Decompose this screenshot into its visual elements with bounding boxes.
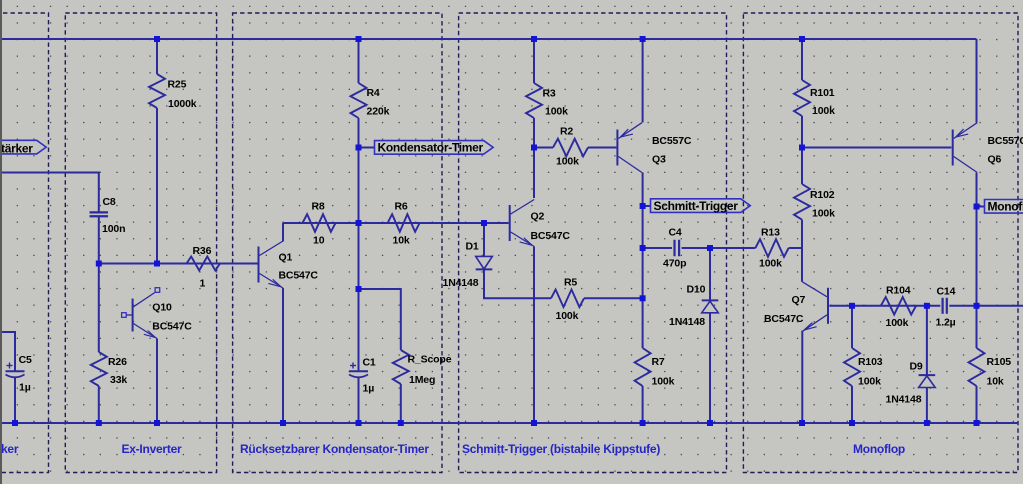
svg-text:C1: C1 bbox=[363, 357, 376, 369]
wire R4 top bbox=[358, 39, 360, 83]
svg-text:1N4148: 1N4148 bbox=[443, 277, 479, 289]
wire C5 bottom bbox=[14, 378, 16, 424]
svg-text:R103: R103 bbox=[858, 356, 883, 368]
resistor R102 bbox=[794, 184, 810, 220]
svg-text:1.2µ: 1.2µ bbox=[936, 317, 956, 329]
wire Q1 base row bbox=[99, 263, 258, 265]
svg-text:10k: 10k bbox=[987, 376, 1004, 388]
svg-text:Schmitt-Trigger: Schmitt-Trigger bbox=[654, 199, 739, 213]
svg-text:R_Scope: R_Scope bbox=[408, 354, 452, 366]
svg-text:Q7: Q7 bbox=[792, 294, 806, 306]
wire R3 top bbox=[533, 39, 535, 83]
wire R101 to base junction bbox=[801, 116, 803, 148]
capacitor C1 (polarized) bbox=[349, 370, 368, 372]
resistor R_Scope bbox=[393, 350, 409, 384]
diode D1 bbox=[476, 256, 493, 269]
svg-text:R36: R36 bbox=[193, 245, 212, 257]
wire flag stub Monoflop bbox=[977, 206, 985, 208]
group box Monoflop bbox=[743, 13, 1018, 473]
wire Q10 emitter down bbox=[156, 339, 158, 424]
capacitor C8 bbox=[90, 211, 109, 213]
svg-text:R101: R101 bbox=[810, 87, 835, 99]
svg-text:Q10: Q10 bbox=[152, 302, 172, 314]
svg-text:Kondensator-Timer: Kondensator-Timer bbox=[378, 141, 484, 155]
resistor R4 bbox=[351, 83, 367, 118]
resistor R104 bbox=[881, 297, 916, 315]
diode D10 bbox=[702, 299, 719, 301]
capacitor C4 bbox=[673, 240, 675, 257]
svg-text:100k: 100k bbox=[812, 208, 835, 220]
wire Q3 collector down bbox=[642, 172, 644, 206]
window left border bbox=[0, 0, 2, 484]
svg-text:BC547C: BC547C bbox=[279, 270, 319, 282]
svg-text:220k: 220k bbox=[367, 106, 390, 118]
wire left input to C8 bbox=[0, 173, 99, 212]
capacitor C5 (polarized) bbox=[6, 370, 25, 372]
resistor R36 bbox=[187, 257, 221, 271]
group box Schmitt-Trigger bbox=[459, 13, 727, 473]
wire Q7 emitter down bbox=[801, 331, 803, 424]
wire flag stub Kondensator-Timer bbox=[359, 147, 375, 149]
svg-text:tärker: tärker bbox=[1, 142, 33, 156]
wire Q1 collector up bbox=[282, 223, 284, 242]
svg-text:Q3: Q3 bbox=[652, 154, 666, 166]
svg-text:R8: R8 bbox=[312, 201, 325, 213]
wire Q6 collector down bbox=[976, 173, 978, 207]
wire top rail corner to Q6 emitter bbox=[976, 39, 978, 123]
wire Q1 emitter down bbox=[282, 288, 284, 423]
svg-text:R3: R3 bbox=[543, 88, 556, 100]
wire R8-R6 base row bbox=[283, 222, 509, 224]
transistor Q2 bbox=[509, 205, 511, 241]
svg-text:D9: D9 bbox=[910, 361, 923, 373]
svg-text:R7: R7 bbox=[652, 356, 665, 368]
wire R101 top bbox=[801, 39, 803, 80]
wire R102 to corner bbox=[801, 220, 803, 282]
net flag Schmitt-Trigger bbox=[651, 199, 751, 213]
svg-text:100k: 100k bbox=[886, 317, 909, 329]
wire C5 stub from left edge bbox=[0, 332, 15, 371]
net flag Verstaerker (clipped) bbox=[0, 140, 46, 154]
svg-text:BC547C: BC547C bbox=[764, 313, 804, 325]
svg-text:R2: R2 bbox=[560, 126, 573, 138]
wire D9 bottom bbox=[926, 388, 928, 423]
diode D9 bbox=[919, 374, 936, 376]
wire ground rail bbox=[0, 422, 1018, 424]
svg-text:33k: 33k bbox=[110, 374, 127, 386]
svg-text:Monoflop: Monoflop bbox=[853, 442, 905, 456]
wire flag stub Schmitt-Trigger bbox=[643, 205, 651, 207]
resistor R5 bbox=[551, 290, 584, 308]
svg-text:Q2: Q2 bbox=[531, 211, 545, 223]
wire D1 top bbox=[483, 223, 485, 256]
wire R2 row bbox=[534, 147, 553, 149]
wire D1 bottom to R5 row bbox=[484, 270, 551, 299]
wire R5 row to R7 bbox=[642, 298, 644, 348]
resistor R2 bbox=[553, 139, 588, 157]
wire Q3col to C4 row bbox=[642, 206, 644, 248]
wire R25 to base row bbox=[156, 108, 158, 264]
svg-text:R102: R102 bbox=[810, 189, 835, 201]
transistor Q6 (PNP) bbox=[952, 130, 954, 166]
svg-text:Q6: Q6 bbox=[988, 154, 1002, 166]
svg-text:R26: R26 bbox=[108, 356, 127, 368]
wire Q6col to C14 row bbox=[976, 207, 978, 306]
wire C4 right stub bbox=[682, 247, 710, 249]
wire R3 to Q2 collector bbox=[533, 118, 535, 198]
svg-text:100k: 100k bbox=[545, 106, 568, 118]
resistor R101 bbox=[794, 80, 810, 116]
wire C4 left stub bbox=[643, 247, 672, 249]
resistor R6 bbox=[388, 214, 420, 232]
group box Ex-Inverter bbox=[65, 13, 216, 473]
resistor R25 bbox=[149, 74, 165, 108]
wire C1 to R_Scope top bbox=[359, 289, 401, 350]
svg-text:1000k: 1000k bbox=[168, 98, 197, 110]
svg-text:C4: C4 bbox=[669, 227, 682, 239]
wire R7 bottom bbox=[642, 386, 644, 423]
wire Q7 base stub bbox=[829, 305, 852, 307]
transistor Q1 bbox=[258, 247, 260, 283]
svg-text:R104: R104 bbox=[886, 285, 911, 297]
svg-text:470p: 470p bbox=[663, 258, 686, 270]
svg-text:100n: 100n bbox=[102, 223, 125, 235]
svg-text:BC557C: BC557C bbox=[652, 135, 692, 147]
resistor R7 bbox=[635, 348, 651, 386]
svg-text:Monoflop: Monoflop bbox=[988, 200, 1023, 214]
svg-text:Ex-Inverter: Ex-Inverter bbox=[122, 442, 183, 456]
wire R26 bottom bbox=[98, 386, 100, 423]
svg-text:100k: 100k bbox=[652, 376, 675, 388]
svg-text:100k: 100k bbox=[812, 105, 835, 117]
wire Q3 emitter up bbox=[642, 39, 644, 123]
wire Q2 emitter down bbox=[533, 247, 535, 424]
wire R103 bottom bbox=[851, 386, 853, 423]
net flag Kondensator-Timer bbox=[375, 141, 494, 155]
svg-text:BC547C: BC547C bbox=[152, 321, 192, 333]
wire C14 row to R105 bbox=[976, 306, 978, 348]
svg-text:R13: R13 bbox=[761, 227, 780, 239]
svg-text:100k: 100k bbox=[556, 156, 579, 168]
wire R102 top bbox=[801, 148, 803, 185]
resistor R105 bbox=[969, 348, 985, 386]
wire R5 row right bbox=[584, 297, 643, 299]
wire Q6 base row bbox=[802, 147, 951, 149]
transistor Q10 bbox=[132, 299, 134, 332]
group box Ruecksetzbarer Kondensator-Timer bbox=[233, 13, 442, 473]
resistor R8 bbox=[303, 214, 336, 232]
svg-text:1Meg: 1Meg bbox=[409, 374, 435, 386]
wire C4 row to R13 bbox=[710, 247, 755, 249]
svg-text:R4: R4 bbox=[367, 87, 380, 99]
wire C4 row to R5 row bbox=[642, 248, 644, 298]
svg-text:Q1: Q1 bbox=[279, 252, 293, 264]
svg-text:R5: R5 bbox=[564, 277, 577, 289]
capacitor C14 bbox=[941, 298, 943, 314]
wire R2 to Q3 base bbox=[588, 147, 616, 149]
group box Verstaerker (clipped left) bbox=[0, 13, 49, 473]
wire C8 to base row bbox=[98, 217, 100, 352]
wire R25 column top bbox=[156, 39, 158, 74]
svg-text:Schmitt-Trigger (bistabile Kip: Schmitt-Trigger (bistabile Kippstufe) bbox=[462, 442, 660, 456]
wire D10 bottom bbox=[709, 313, 711, 424]
svg-text:ker: ker bbox=[1, 442, 19, 456]
wire top supply rail bbox=[0, 38, 977, 40]
transistor Q3 (PNP) bbox=[616, 130, 618, 166]
wire D10 top bbox=[709, 248, 711, 300]
svg-text:1N4148: 1N4148 bbox=[669, 316, 705, 328]
resistor R13 bbox=[755, 239, 788, 257]
svg-text:10k: 10k bbox=[393, 235, 410, 247]
svg-text:R25: R25 bbox=[168, 79, 187, 91]
junction dots bbox=[154, 36, 160, 42]
wire R104-C14 row bbox=[852, 305, 940, 307]
wire R105 bottom bbox=[976, 386, 978, 423]
svg-text:R6: R6 bbox=[395, 201, 408, 213]
net flag Monoflop (clipped right) bbox=[985, 200, 1023, 214]
svg-text:1µ: 1µ bbox=[19, 382, 31, 394]
resistor R3 bbox=[526, 83, 542, 118]
svg-text:1: 1 bbox=[200, 278, 206, 290]
wire C14 right to edge bbox=[949, 305, 1023, 307]
svg-text:C5: C5 bbox=[19, 354, 32, 366]
resistor R103 bbox=[844, 348, 860, 386]
transistor Q7 (mirrored NPN) bbox=[827, 288, 829, 324]
svg-text:100k: 100k bbox=[759, 258, 782, 270]
wire R_Scope bottom bbox=[400, 384, 402, 423]
svg-text:D1: D1 bbox=[466, 241, 479, 253]
svg-text:BC547C: BC547C bbox=[531, 230, 571, 242]
wire D9 top bbox=[926, 306, 928, 375]
wire R103 top bbox=[851, 306, 853, 348]
svg-text:C14: C14 bbox=[937, 286, 956, 298]
wire R4col to C1 bbox=[358, 223, 360, 371]
svg-text:BC557C: BC557C bbox=[988, 135, 1023, 147]
svg-text:Rücksetzbarer Kondensator-Time: Rücksetzbarer Kondensator-Timer bbox=[240, 442, 429, 456]
svg-text:100k: 100k bbox=[858, 376, 881, 388]
resistor R26 bbox=[91, 352, 107, 386]
svg-text:C8: C8 bbox=[103, 196, 116, 208]
wire R4 to flag row bbox=[358, 118, 360, 223]
wire R13 to Q7 collector col bbox=[789, 247, 803, 249]
wire C1 bottom bbox=[358, 378, 360, 424]
svg-text:100k: 100k bbox=[556, 310, 579, 322]
svg-text:10: 10 bbox=[313, 235, 325, 247]
svg-text:D10: D10 bbox=[687, 284, 706, 296]
svg-text:R105: R105 bbox=[987, 356, 1012, 368]
svg-text:1N4148: 1N4148 bbox=[886, 394, 922, 406]
svg-text:1µ: 1µ bbox=[363, 383, 375, 395]
